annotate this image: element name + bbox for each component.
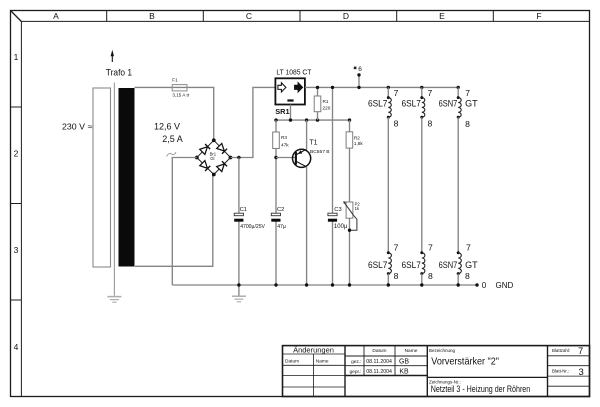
wire regulator ground pin bbox=[290, 105, 292, 121]
svg-text:230 V ≈: 230 V ≈ bbox=[62, 122, 93, 132]
fuse F1 bbox=[172, 78, 190, 98]
capacitor C1 bbox=[234, 207, 265, 230]
svg-text:T1: T1 bbox=[309, 140, 317, 147]
svg-text:12,6 V: 12,6 V bbox=[154, 121, 180, 131]
transformer shield ground symbol bbox=[107, 297, 121, 303]
bridge rectifier Br1 label bbox=[210, 151, 217, 161]
ground symbol below C1 bbox=[232, 296, 246, 302]
svg-text:R3: R3 bbox=[281, 135, 287, 140]
wire tube col2 to ground bus bbox=[421, 274, 423, 285]
wire tube col3 row1 pin8 down to row2 pin7 bbox=[457, 117, 459, 253]
svg-text:C3: C3 bbox=[334, 207, 341, 213]
wire T1 collector down to ground bus bbox=[306, 167, 308, 285]
bridge diode lower-right bbox=[217, 161, 227, 171]
ground bus wire bbox=[172, 284, 477, 286]
svg-text:GT: GT bbox=[465, 260, 478, 270]
svg-text:gez.:: gez.: bbox=[351, 360, 361, 365]
svg-text:Vorverstärker "2": Vorverstärker "2" bbox=[431, 357, 499, 368]
svg-text:2: 2 bbox=[14, 149, 19, 159]
wire T1 base bbox=[276, 157, 296, 159]
svg-text:7: 7 bbox=[428, 88, 433, 98]
svg-text:3: 3 bbox=[579, 367, 584, 378]
svg-text:KB: KB bbox=[399, 369, 409, 376]
svg-text:F: F bbox=[536, 11, 541, 21]
svg-text:08.11.2004: 08.11.2004 bbox=[366, 369, 392, 375]
svg-text:8: 8 bbox=[428, 271, 433, 281]
wire T1 emitter up to adjust rail bbox=[306, 120, 308, 149]
svg-text:8: 8 bbox=[394, 271, 399, 281]
svg-text:3: 3 bbox=[14, 245, 19, 255]
bridge diode upper-right bbox=[217, 143, 227, 153]
svg-text:Blattzahl:: Blattzahl: bbox=[552, 348, 570, 353]
svg-text:C2: C2 bbox=[277, 207, 284, 213]
svg-text:GND: GND bbox=[496, 281, 514, 290]
svg-text:E: E bbox=[439, 11, 445, 21]
svg-text:3,15 A tr: 3,15 A tr bbox=[172, 92, 189, 97]
wire C3 branch from top bus bbox=[332, 87, 334, 285]
AC tilde mark near bridge left bbox=[167, 152, 177, 157]
svg-text:7: 7 bbox=[428, 242, 433, 252]
junction tube col1 at ground bus bbox=[387, 283, 390, 286]
svg-text:C: C bbox=[246, 11, 252, 21]
svg-text:Änderungen: Änderungen bbox=[293, 345, 334, 354]
svg-text:6SL7: 6SL7 bbox=[402, 98, 421, 108]
wire trimmer to ground bus bbox=[349, 218, 351, 285]
svg-text:47µ: 47µ bbox=[277, 224, 286, 230]
svg-text:Name: Name bbox=[316, 358, 329, 364]
svg-text:C1: C1 bbox=[240, 207, 247, 213]
junction T1 base node bbox=[274, 156, 277, 159]
wire tube col3 to ground bus bbox=[457, 274, 459, 285]
bridge diode lower-left bbox=[200, 161, 210, 171]
tube heater row 1 col 2: 6SL7 bbox=[402, 86, 433, 129]
wire bridge right to regulator input bbox=[231, 87, 276, 157]
wire adjust rail bbox=[276, 119, 350, 121]
wire secondary top to fuse to bridge top bbox=[135, 87, 214, 140]
junction C2 at ground bus bbox=[274, 283, 277, 286]
junction R3 top at adjust rail bbox=[274, 118, 277, 121]
svg-text:1,8k: 1,8k bbox=[354, 141, 364, 146]
junction +6 terminal at top bus bbox=[357, 86, 360, 89]
transistor T1 BC557B bbox=[293, 140, 330, 168]
svg-text:R1: R1 bbox=[323, 99, 329, 104]
trimmer potentiometer P2 1k bbox=[343, 201, 360, 230]
svg-text:7: 7 bbox=[394, 88, 399, 98]
terminal +6 output bbox=[354, 66, 362, 88]
svg-text:8: 8 bbox=[394, 118, 399, 128]
junction tube col2 at ground bus bbox=[420, 283, 423, 286]
svg-text:7: 7 bbox=[466, 242, 471, 252]
svg-text:Blatt-Nr.:: Blatt-Nr.: bbox=[552, 368, 569, 373]
resistor R3 bbox=[273, 120, 290, 148]
svg-text:100µ: 100µ bbox=[334, 224, 348, 230]
node bridge top bbox=[212, 138, 216, 142]
tube heater row 1 col 3: 6SN7 GT bbox=[439, 86, 479, 129]
junction C1 tap on positive rail bbox=[237, 156, 240, 159]
wire bridge left to ground bus bbox=[172, 158, 197, 286]
wire C1 branch bbox=[238, 158, 240, 297]
resistor R1 bbox=[314, 87, 331, 120]
tube heater row 2 col 3: 6SN7 GT bbox=[439, 242, 479, 281]
transformer core / shield line bbox=[113, 83, 115, 296]
transformer Trafo 1 secondary winding bbox=[119, 88, 135, 267]
svg-text:Trafo 1: Trafo 1 bbox=[106, 67, 132, 77]
junction C3 at ground bus bbox=[331, 283, 334, 286]
svg-text:6SL7: 6SL7 bbox=[368, 98, 387, 108]
junction C1 at ground bus bbox=[237, 283, 240, 286]
wire R2 bottom to trimmer bbox=[349, 148, 351, 202]
svg-text:GB: GB bbox=[399, 359, 409, 366]
junction T1 collector at ground bus bbox=[305, 283, 308, 286]
svg-text:7: 7 bbox=[394, 242, 399, 252]
svg-text:6SN7: 6SN7 bbox=[439, 260, 458, 270]
svg-text:LT 1085 CT: LT 1085 CT bbox=[276, 68, 311, 77]
wire tube col2 row1 pin8 down to row2 pin7 bbox=[421, 117, 423, 253]
transformer Trafo 1 marker arrow bbox=[111, 50, 114, 62]
tube heater row 2 col 1: 6SL7 bbox=[368, 242, 399, 281]
junction regulator ground pin at adjust rail bbox=[289, 118, 292, 121]
svg-text:6SN7: 6SN7 bbox=[439, 98, 458, 108]
svg-text:6SL7: 6SL7 bbox=[402, 260, 421, 270]
node bridge left bbox=[195, 156, 199, 160]
svg-text:6SL7: 6SL7 bbox=[368, 260, 387, 270]
svg-text:6: 6 bbox=[358, 66, 362, 73]
svg-text:gepr.:: gepr.: bbox=[349, 369, 361, 375]
junction tube col3 at ground bus bbox=[457, 283, 460, 286]
svg-text:BC557 B: BC557 B bbox=[310, 149, 330, 155]
wire tube col1 to ground bus bbox=[387, 274, 389, 285]
bridge rectifier Br1 diamond bbox=[197, 140, 231, 174]
resistor R2 bbox=[346, 120, 363, 148]
svg-text:Name: Name bbox=[405, 348, 418, 354]
svg-text:08.11.2004: 08.11.2004 bbox=[366, 359, 392, 365]
svg-text:8: 8 bbox=[428, 118, 433, 128]
svg-text:220: 220 bbox=[323, 106, 331, 111]
svg-text:8: 8 bbox=[465, 119, 470, 129]
node bridge right bbox=[229, 156, 233, 160]
capacitor C2 bbox=[271, 207, 286, 230]
transformer Trafo 1 primary winding bbox=[93, 88, 111, 267]
svg-text:A: A bbox=[53, 11, 59, 21]
junction C3 branch at top bus bbox=[331, 86, 334, 89]
svg-text:B: B bbox=[149, 11, 155, 21]
wire regulator output top bus bbox=[305, 86, 458, 88]
svg-text:R2: R2 bbox=[354, 136, 360, 141]
wire secondary bottom to bridge bottom bbox=[135, 175, 213, 267]
svg-text:SR1: SR1 bbox=[275, 107, 289, 116]
tube heater row 2 col 2: 6SL7 bbox=[402, 242, 434, 281]
svg-text:Datum: Datum bbox=[285, 358, 299, 364]
svg-text:47k: 47k bbox=[281, 142, 289, 147]
svg-text:Bezeichnung: Bezeichnung bbox=[429, 348, 456, 353]
terminal 0 GND bbox=[475, 281, 513, 290]
junction R2 top at adjust rail bbox=[348, 118, 351, 121]
capacitor C3 bbox=[328, 207, 348, 230]
junction wiper tie bbox=[348, 229, 351, 232]
junction T1 emitter at adjust rail bbox=[305, 118, 308, 121]
svg-text:0: 0 bbox=[482, 281, 487, 290]
junction R1 bottom at adjust rail bbox=[316, 118, 319, 121]
svg-text:7: 7 bbox=[578, 346, 583, 357]
bridge diode upper-left bbox=[200, 144, 210, 154]
svg-text:4: 4 bbox=[14, 342, 19, 352]
svg-text:4700µ/25V: 4700µ/25V bbox=[240, 224, 265, 230]
svg-text:1: 1 bbox=[14, 52, 19, 62]
wire R3 bottom to T1 base node and C2 bbox=[275, 149, 277, 286]
node bridge bottom bbox=[212, 173, 216, 177]
junction trimmer at ground bus bbox=[348, 283, 351, 286]
svg-text:7: 7 bbox=[465, 88, 470, 98]
svg-text:Netzteil 3 - Heizung der Röhre: Netzteil 3 - Heizung der Röhren bbox=[431, 384, 530, 394]
svg-text:2,5 A: 2,5 A bbox=[162, 134, 183, 144]
svg-text:GT: GT bbox=[465, 98, 478, 108]
tube heater row 1 col 1: 6SL7 bbox=[368, 86, 399, 129]
junction R1 at top bus bbox=[316, 86, 319, 89]
svg-text:F1: F1 bbox=[172, 78, 178, 83]
regulator SR1 LT 1085 CT bbox=[275, 68, 312, 116]
svg-text:D: D bbox=[343, 11, 349, 21]
svg-text:Gl: Gl bbox=[210, 156, 214, 161]
svg-text:8: 8 bbox=[465, 271, 470, 281]
svg-text:Datum: Datum bbox=[372, 348, 386, 354]
wire tube col1 row1 pin8 down to row2 pin7 bbox=[387, 117, 389, 253]
